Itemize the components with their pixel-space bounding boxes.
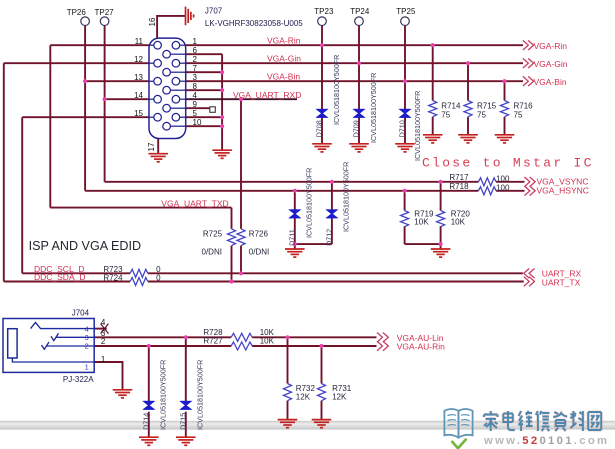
svg-text:R727: R727 [203, 337, 223, 346]
svg-text:6: 6 [193, 46, 198, 55]
svg-text:5: 5 [193, 109, 198, 118]
junction D714 on AU-Rin [147, 344, 151, 348]
test point TP24 circle [355, 17, 364, 26]
svg-text:13: 13 [134, 73, 143, 82]
svg-text:12: 12 [134, 55, 143, 64]
svg-text:ICVL0518100Y500FR: ICVL0518100Y500FR [369, 73, 378, 143]
svg-text:15: 15 [134, 109, 143, 118]
wire D711 gnd stub [294, 244, 296, 249]
svg-text:D712: D712 [324, 229, 333, 246]
wire D712 top [331, 182, 333, 210]
junction R732 on AU-Lin [285, 335, 289, 339]
junction R716 on VGA-Bin [502, 79, 506, 83]
svg-text:TP25: TP25 [396, 7, 416, 16]
wire DDC_SDA_D row left of R724 [4, 281, 130, 283]
wire R720 gnd stub [440, 244, 442, 249]
svg-text:1: 1 [85, 365, 89, 372]
svg-text:VGA_UART_TXD: VGA_UART_TXD [161, 199, 228, 209]
output arrow VGA_VSYNC [524, 177, 535, 187]
junction TP27 on pin14 wire [103, 97, 107, 101]
resistor R719 zigzag [401, 211, 409, 227]
ground under D708 [312, 144, 332, 152]
ground under R716 [495, 135, 515, 143]
wire VGA_UART_TXD row [50, 207, 231, 209]
TVS diode D715 [181, 401, 191, 409]
junction R720 on VSYNC [439, 180, 443, 184]
wire R725 bottom vertical [231, 246, 233, 282]
audio jack J704 body [3, 319, 94, 373]
ground at J707 pin17 [148, 154, 168, 162]
ground under D709 [349, 144, 369, 152]
svg-text:R716: R716 [514, 101, 534, 110]
svg-text:D715: D715 [178, 413, 187, 430]
wire VGA-Rin row (pin1 to arrow) [186, 44, 523, 46]
svg-text:4: 4 [85, 326, 89, 333]
resistor R724 zigzag [130, 278, 148, 286]
svg-text:R715: R715 [477, 101, 497, 110]
wire TP25/D710 vertical upper [404, 26, 406, 110]
ground under R732 [278, 420, 298, 428]
svg-text:LK-VGHRF30823058-U005: LK-VGHRF30823058-U005 [205, 19, 303, 28]
resistor R718 zigzag [478, 187, 496, 195]
svg-text:R724: R724 [103, 273, 123, 282]
no-connect X on jack pin4 [101, 324, 109, 334]
svg-text:10K: 10K [451, 218, 466, 227]
wire R732 bottom [287, 401, 289, 420]
svg-text:VGA-Rin: VGA-Rin [267, 35, 301, 45]
wire pin12 row [4, 62, 149, 64]
svg-text:ICVL0518100Y500FR: ICVL0518100Y500FR [342, 162, 351, 232]
junction R719 on HSYNC [403, 189, 407, 193]
test point TP25 circle [401, 17, 410, 26]
svg-text:D710: D710 [398, 120, 407, 137]
svg-text:0/DNI: 0/DNI [202, 247, 222, 256]
ground under R715 [458, 135, 478, 143]
wire VGA_VSYNC row right of R717 [496, 181, 524, 183]
wire R720 top [440, 182, 442, 211]
connector J707 pin circles and internal stubs [149, 41, 186, 130]
wire connector gnd bus vertical [221, 54, 223, 150]
wire pin7 stub [186, 71, 222, 73]
TVS diode D711 [290, 210, 300, 218]
wire VGA_HSYNC row left of R718 [85, 190, 478, 192]
svg-text:10K: 10K [260, 337, 275, 346]
wire VGA_VSYNC row left of R717 [105, 181, 479, 183]
wire DDC_SCL_D row left of R723 [22, 272, 130, 274]
output arrow VGA-AU-Lin [377, 333, 388, 343]
jack pin numbers (black) [101, 318, 106, 364]
wire R714 bottom [432, 117, 434, 135]
svg-text:ICVL0518100Y500FR: ICVL0518100Y500FR [413, 91, 422, 161]
junction R731 on AU-Rin [319, 344, 323, 348]
svg-text:D709: D709 [352, 120, 361, 137]
wire jack pin1 stub [94, 362, 122, 390]
ground under D711/D712 [285, 249, 305, 257]
svg-text:12K: 12K [296, 392, 311, 401]
svg-text:R728: R728 [203, 328, 223, 337]
wire pin9 stub to no-connect [186, 107, 210, 109]
svg-text:J704: J704 [72, 308, 90, 317]
wire pin17 to bottom ground [157, 139, 159, 154]
svg-text:TP23: TP23 [314, 7, 334, 16]
wire pin16 to top ground [157, 16, 185, 38]
svg-text:2: 2 [101, 337, 106, 346]
input arrow UART_RX (points left) [524, 269, 535, 279]
junction pin5 on gnd bus [220, 115, 224, 119]
svg-text:VGA-Gin: VGA-Gin [267, 53, 301, 63]
wire VGA-AU-Lin row left of R728 [94, 336, 231, 338]
svg-text:R725: R725 [203, 229, 223, 238]
svg-text:100: 100 [496, 184, 510, 193]
ground under R731 [312, 420, 332, 428]
svg-text:2: 2 [193, 55, 198, 64]
svg-text:75: 75 [477, 110, 486, 119]
wire VGA_UART_RXD vertical lower (below R726) [240, 246, 242, 274]
wire pin15 row [22, 116, 149, 118]
resistor R716 zigzag [501, 101, 509, 117]
wire TP24/D709 vertical upper [358, 26, 360, 110]
wire R719 bottom [404, 226, 406, 244]
wire R719 top [404, 191, 406, 211]
wire DDC_SDA_D / UART_TX row right of R724 [148, 281, 524, 283]
wire VGA-AU-Lin row right of R728 [252, 336, 376, 338]
wire jack pin4 stub (no connect) [94, 328, 107, 330]
svg-text:ICVL0518100Y500FR: ICVL0518100Y500FR [332, 55, 341, 125]
svg-text:TP24: TP24 [350, 7, 370, 16]
svg-text:TP26: TP26 [67, 8, 87, 17]
wire D714 top [148, 346, 150, 401]
ground at connector gnd bus [212, 150, 232, 158]
junction pin8 on gnd bus [220, 88, 224, 92]
svg-text:R718: R718 [449, 182, 469, 191]
svg-text:75: 75 [441, 110, 450, 119]
resistor R714 zigzag [429, 101, 437, 117]
ARROWS [377, 40, 535, 350]
output arrow VGA-Rin [523, 40, 534, 50]
svg-text:0/DNI: 0/DNI [249, 247, 269, 256]
wire pin11 row [50, 44, 149, 46]
svg-text:VGA-Rin: VGA-Rin [534, 41, 568, 51]
no-connect square on pin 9 [210, 107, 216, 113]
resistor R723 zigzag [130, 269, 148, 277]
ground at J704 pin1 [113, 390, 133, 398]
svg-text:VGA_UART_RXD: VGA_UART_RXD [233, 90, 301, 100]
svg-text:4: 4 [193, 91, 198, 100]
wire D712 bottom [331, 218, 333, 244]
resistor R727 zigzag [231, 342, 252, 350]
wire pin14 row [105, 98, 149, 100]
wire R715 bottom [467, 117, 469, 135]
wire DDC_SCL_D / UART_RX row right of R723 [148, 272, 523, 274]
wire D715 top [185, 337, 187, 401]
ground symbol at J707 pin16 (rotated, opens right) [186, 7, 194, 26]
wire pin15 vertical [21, 117, 23, 273]
junction D711 on HSYNC [293, 189, 297, 193]
svg-text:R717: R717 [449, 173, 469, 182]
wire R716 bottom [504, 117, 506, 135]
output arrow VGA-AU-Rin [377, 341, 388, 351]
svg-text:R726: R726 [249, 229, 269, 238]
svg-text:D711: D711 [287, 229, 296, 246]
resistor R725 zigzag [228, 229, 236, 246]
ground under D715 [176, 437, 196, 445]
TVS diode D710 [400, 109, 410, 117]
wire pin11 vertical [49, 45, 51, 207]
junction RXD vertical on pin4 stub [239, 97, 243, 101]
svg-text:2: 2 [85, 344, 89, 351]
svg-text:DDC_SDA_D: DDC_SDA_D [34, 272, 86, 282]
resistor R728 zigzag [231, 333, 252, 341]
svg-text:J707: J707 [205, 7, 223, 16]
wire pin8 stub [186, 89, 222, 91]
svg-text:10: 10 [193, 118, 202, 127]
TVS diode D714 [144, 401, 154, 409]
wire pin5 stub [186, 116, 222, 118]
ground under R719/R720 [431, 249, 451, 257]
svg-text:UART_TX: UART_TX [542, 278, 581, 288]
svg-text:VGA-AU-Rin: VGA-AU-Rin [397, 342, 445, 352]
wire D710 to ground [404, 117, 406, 144]
output arrow VGA_HSYNC [524, 186, 535, 196]
wire R720 bottom [440, 226, 442, 244]
GROUNDS [113, 7, 515, 446]
junction R714 on VGA-Rin [431, 43, 435, 47]
logo green tick [452, 439, 467, 449]
wire pin13 row [85, 80, 149, 82]
grey separator bar [0, 421, 615, 430]
svg-text:VGA_HSYNC: VGA_HSYNC [537, 185, 589, 195]
svg-text:R714: R714 [441, 101, 461, 110]
junction R720 gnd link [439, 242, 443, 246]
junction R725 on DDC_SDA [229, 279, 233, 283]
resistor R731 zigzag [318, 384, 326, 401]
logo Chinese characters (drawn strokes) [484, 411, 601, 431]
wire R731 bottom [321, 401, 323, 420]
svg-text:D708: D708 [315, 120, 324, 137]
svg-text:VGA-Bin: VGA-Bin [267, 71, 300, 81]
wire D711 top [294, 191, 296, 210]
resistor R732 zigzag [284, 384, 292, 401]
svg-text:VGA-Gin: VGA-Gin [534, 59, 568, 69]
svg-text:ICVL0518100Y500FR: ICVL0518100Y500FR [159, 360, 168, 430]
ground under R714 [423, 135, 443, 143]
junction R715 on VGA-Gin [466, 61, 470, 65]
svg-text:ISP AND VGA EDID: ISP AND VGA EDID [29, 239, 141, 253]
wire pin4 VGA_UART_RXD stub [186, 98, 297, 100]
junction pin10 on gnd bus [220, 124, 224, 128]
resistor R726 zigzag [237, 229, 245, 246]
wire VGA-AU-Rin row left of R727 [94, 345, 231, 347]
svg-text:8: 8 [193, 82, 198, 91]
svg-text:ICVL0518100Y500FR: ICVL0518100Y500FR [196, 360, 205, 430]
wire R725 top vertical [231, 208, 233, 229]
svg-text:3: 3 [85, 335, 89, 342]
logo book icon [444, 409, 472, 438]
junction R726 on DDC_SCL [239, 271, 243, 275]
wire D715 bottom [185, 412, 187, 438]
output arrow UART_TX [524, 277, 535, 287]
svg-text:Close to Mstar IC: Close to Mstar IC [422, 156, 594, 171]
junction TP25 on VGA-Bin [403, 79, 407, 83]
svg-text:12K: 12K [332, 392, 347, 401]
wire VGA-Gin row (pin2 to arrow) [186, 62, 523, 64]
TVS diode D709 [354, 109, 364, 117]
wire pin12 vertical [3, 63, 5, 281]
wire pin6 stub to gnd bus [186, 53, 222, 55]
svg-text:10K: 10K [260, 328, 275, 337]
wire D709 to ground [358, 117, 360, 144]
junction TP23 on VGA-Rin [320, 43, 324, 47]
svg-text:VGA-Bin: VGA-Bin [534, 77, 567, 87]
output arrow VGA-Bin [523, 76, 534, 86]
ground under D714 [139, 437, 159, 445]
wire R714 top [432, 45, 434, 100]
wire D711-D712 gnd link [295, 243, 332, 245]
jack pin names (blue) [85, 326, 89, 371]
wire VGA-AU-Rin row right of R727 [252, 345, 376, 347]
ground under D710 [395, 144, 415, 152]
svg-text:75: 75 [514, 110, 523, 119]
wire R715 top [467, 63, 469, 100]
svg-text:17: 17 [147, 142, 156, 151]
wire TP27 vertical [104, 26, 106, 182]
wire VGA_UART_RXD vertical upper [240, 99, 242, 229]
wire D708 to ground [321, 117, 323, 144]
svg-text:0: 0 [156, 273, 161, 282]
TVS diode D712 [327, 210, 337, 218]
svg-text:D714: D714 [141, 413, 150, 430]
svg-text:10K: 10K [414, 218, 429, 227]
svg-text:3: 3 [193, 73, 198, 82]
svg-text:11: 11 [135, 37, 144, 46]
wire R716 top [504, 81, 506, 100]
TVS diode D708 [317, 109, 327, 117]
svg-text:9: 9 [193, 100, 198, 109]
wire TP26 vertical [84, 26, 86, 191]
junction TP26 on pin13 wire [83, 79, 87, 83]
svg-text:TP27: TP27 [95, 8, 115, 17]
test point TP26 circle [81, 17, 90, 26]
resistor R717 zigzag [478, 178, 496, 186]
svg-text:1: 1 [193, 37, 198, 46]
wire VGA-Bin row (pin3 to arrow) [186, 80, 523, 82]
wire TP23/D708 vertical upper [321, 26, 323, 110]
wire pin10 stub [186, 125, 222, 127]
svg-text:100: 100 [496, 175, 510, 184]
svg-text:PJ-322A: PJ-322A [63, 375, 94, 384]
junction D711 gnd link [293, 242, 297, 246]
svg-text:16: 16 [148, 17, 157, 26]
wire R731 top [321, 346, 323, 384]
test point TP27 circle [100, 17, 109, 26]
junction D712 on VSYNC [330, 180, 334, 184]
wire D711 bottom [294, 218, 296, 244]
svg-text:4: 4 [101, 318, 106, 327]
wire R719-R720 gnd link [405, 243, 441, 245]
connector J707 body [149, 38, 186, 138]
svg-text:www.520101.com: www.520101.com [483, 435, 609, 447]
junction TP24 on VGA-Gin [357, 61, 361, 65]
test point TP23 circle [318, 17, 327, 26]
svg-text:ICVL0518100Y500FR: ICVL0518100Y500FR [305, 168, 314, 238]
junction pin7 on gnd bus [220, 70, 224, 74]
resistor R720 zigzag [437, 211, 445, 227]
resistor R715 zigzag [464, 101, 472, 117]
svg-text:7: 7 [193, 64, 198, 73]
output arrow VGA-Gin [523, 58, 534, 68]
svg-text:14: 14 [134, 91, 143, 100]
svg-text:1: 1 [101, 355, 106, 364]
wire D714 bottom [148, 412, 150, 438]
junction D715 on AU-Lin [184, 335, 188, 339]
wire VGA_HSYNC row right of R718 [496, 190, 524, 192]
wire R732 top [287, 337, 289, 383]
audio jack J704 contacts [12, 323, 94, 363]
